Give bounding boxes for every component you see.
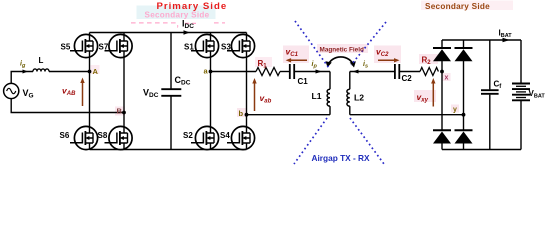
wire L2 top to C2	[350, 71, 395, 73]
wire L2 bottom to node y	[350, 114, 464, 116]
IDC arrow on rail	[184, 30, 190, 34]
Cf leads	[489, 40, 491, 150]
capacitor CDC	[161, 89, 181, 96]
diode D3 bottom-left	[433, 130, 451, 143]
battery VBAT	[512, 84, 530, 101]
diode D4 bottom-right	[455, 130, 473, 143]
primary bottom rail	[90, 149, 247, 151]
svg-text:Secondary Side: Secondary Side	[425, 2, 490, 11]
blue dotted field line bottom-right	[350, 118, 384, 164]
svg-text:S7: S7	[99, 43, 109, 52]
capacitor Cf	[481, 90, 499, 94]
node y dot	[462, 113, 466, 117]
svg-text:y: y	[453, 107, 457, 114]
diode leg2 vertical	[463, 40, 465, 150]
coil L1	[327, 89, 330, 106]
blue dotted field line top-right	[351, 22, 386, 65]
diode D2 top-right	[455, 48, 473, 61]
transistor S4	[227, 126, 255, 149]
primary top rail	[90, 32, 247, 34]
svg-text:S6: S6	[60, 131, 70, 140]
leg S5-A-S6	[89, 57, 91, 127]
AC source VG	[4, 83, 19, 98]
svg-text:B: B	[117, 107, 123, 116]
voltage arrow vab	[254, 82, 256, 111]
resistor R2	[420, 68, 438, 76]
voltage arrow vxy	[432, 82, 434, 107]
wire VG bottom to node B	[11, 98, 124, 112]
transistor S7	[105, 34, 133, 57]
battery leads	[520, 40, 522, 150]
svg-text:S8: S8	[98, 131, 108, 140]
wire node b to L1 bottom	[247, 114, 331, 116]
leg S1 top	[210, 33, 212, 36]
transistor S3	[227, 34, 255, 57]
wire node a to R1	[211, 71, 257, 73]
coil L2 vertical leads	[349, 72, 351, 115]
node B dot	[122, 111, 126, 115]
wire C1 to L1 top	[295, 71, 330, 73]
voltage arrow vC2 (right)	[378, 59, 396, 61]
voltage arrow vAB	[82, 81, 84, 106]
node A dot	[88, 70, 92, 74]
diode leg1 vertical	[441, 40, 443, 150]
svg-text:b: b	[239, 109, 244, 118]
magnetic field coupling arrow	[328, 57, 354, 66]
transistor S1	[191, 34, 219, 57]
resistor R1	[256, 68, 280, 76]
leg S5-S6 upper	[89, 33, 91, 36]
svg-text:,: ,	[177, 20, 179, 29]
leg S7 top	[123, 33, 125, 36]
node a dot	[209, 70, 213, 74]
coil L1 vertical leads	[329, 72, 331, 115]
svg-text:Airgap TX - RX: Airgap TX - RX	[312, 153, 371, 163]
svg-text:S2: S2	[183, 131, 193, 140]
capacitor C2	[395, 64, 399, 79]
transistor S8	[105, 126, 133, 149]
svg-text:C1: C1	[298, 77, 309, 86]
leg S7-B-S8	[123, 57, 125, 127]
svg-text:S5: S5	[61, 43, 71, 52]
transistor S6	[70, 126, 98, 149]
blue dotted field line bottom-left	[294, 118, 327, 164]
transistor S5	[70, 34, 98, 57]
svg-text:S4: S4	[220, 131, 230, 140]
leg S3-b-S4	[246, 57, 248, 127]
voltage arrow vC1 (left)	[290, 59, 308, 61]
svg-text:A: A	[93, 67, 99, 76]
dc link CDC vertical	[170, 33, 172, 150]
svg-text:L2: L2	[354, 93, 364, 103]
secondary bottom rail	[442, 149, 521, 151]
svg-text:L1: L1	[312, 91, 322, 101]
wire C2 to R2	[400, 71, 420, 73]
current ig arrow	[23, 70, 29, 74]
IBAT arrow on rail	[503, 38, 511, 42]
svg-text:Magnetic Field: Magnetic Field	[320, 47, 364, 54]
svg-text:L: L	[39, 56, 44, 65]
wire inductor L to node A	[49, 71, 90, 73]
leg S3 top	[246, 33, 248, 36]
current is arrow	[353, 70, 359, 74]
svg-text:x: x	[445, 75, 449, 82]
node b dot	[245, 113, 249, 117]
node x dot	[440, 70, 444, 74]
inductor L coil	[33, 69, 49, 72]
svg-text:S1: S1	[184, 43, 194, 52]
pink dashed overlay line	[131, 22, 225, 24]
svg-text:C2: C2	[402, 74, 413, 83]
current ip arrow	[316, 70, 323, 74]
wire VG top to node A	[11, 72, 33, 84]
capacitor C1	[290, 64, 294, 79]
secondary top rail	[442, 39, 521, 41]
svg-text:S3: S3	[221, 43, 231, 52]
leg S1-a-S2	[210, 57, 212, 127]
svg-text:Secondary Side: Secondary Side	[145, 10, 210, 19]
coil L2	[347, 89, 350, 106]
blue dotted field line top-left	[295, 21, 329, 68]
wire R1 to C1	[280, 71, 289, 73]
transistor S2	[191, 126, 219, 149]
diode D1 top-left	[433, 48, 451, 61]
